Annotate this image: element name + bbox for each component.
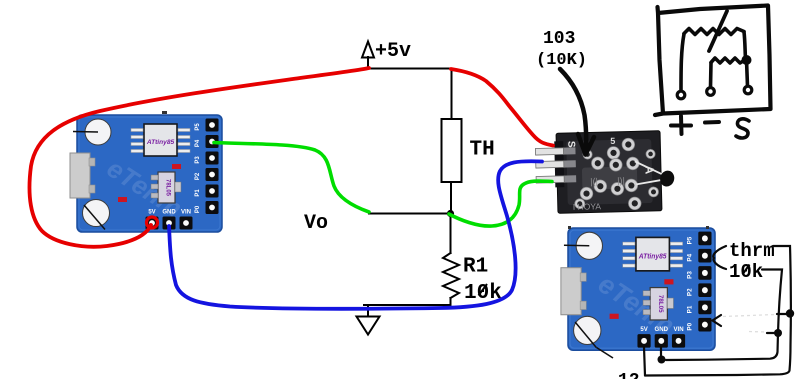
- header pin P0 B: [698, 318, 711, 332]
- red SMD component 1 B: [664, 279, 673, 284]
- header pin P2 B: [698, 283, 711, 297]
- svg-text:P1: P1: [687, 305, 694, 313]
- blue wire: left board GND to module middle pin: [169, 161, 542, 309]
- solder pads: [607, 146, 620, 159]
- svg-text:GND: GND: [162, 210, 176, 216]
- svg-text:VIN: VIN: [673, 326, 684, 333]
- svg-text:+5v: +5v: [375, 40, 411, 63]
- pcb texture: [566, 139, 653, 205]
- wire GND pin down to junction: [660, 347, 662, 358]
- header pin P2 A: [206, 168, 219, 181]
- svg-text:78L05: 78L05: [657, 295, 664, 313]
- tick mark above left board: [162, 111, 167, 114]
- thermistor TH body: [442, 119, 462, 182]
- board PCB B: [568, 228, 715, 350]
- slashed zero of 10k: [479, 284, 488, 296]
- thermistor leads: [635, 161, 663, 176]
- svg-text:ATtiny85: ATtiny85: [146, 139, 175, 146]
- bottom pin 5V B: [637, 334, 650, 348]
- svg-text:5V: 5V: [148, 210, 155, 216]
- svg-text:5V: 5V: [640, 326, 648, 333]
- red SMD component 1 A: [172, 164, 181, 169]
- resistor R1 zigzag: [443, 253, 459, 298]
- hand-drawn arrow to module: [560, 69, 594, 155]
- KY-013 thermistor module: [535, 130, 677, 213]
- svg-text:(10K): (10K): [536, 51, 587, 70]
- red SMD component 2 A: [118, 197, 127, 202]
- green wire: left board P4 to Vo: [214, 143, 369, 213]
- module header pin base: [554, 141, 564, 187]
- mounting hole bottom-left B: [574, 316, 601, 344]
- ATtiny85 IC U-A: [144, 124, 177, 156]
- handwritten minus: [705, 120, 719, 125]
- svg-text:P2: P2: [195, 172, 201, 180]
- annotation line through bottom hole B: [575, 322, 596, 348]
- svg-text:S: S: [565, 141, 576, 148]
- symbol resistor zigzag top: [684, 29, 744, 35]
- annotation line through top hole A: [73, 131, 98, 134]
- svg-text:78L05: 78L05: [165, 179, 171, 197]
- svg-text:A: A: [642, 165, 656, 174]
- red wire: +5v rail to module pin S: [451, 69, 553, 146]
- wire: Vo tap line: [369, 213, 450, 215]
- svg-text:|(|: |(|: [590, 176, 598, 186]
- svg-text:I HOYA: I HOYA: [573, 201, 602, 212]
- red wire: +5v to left board 5V (big loop): [29, 68, 369, 247]
- bottom pin VIN A: [180, 217, 193, 230]
- wire: ground rail: [364, 304, 451, 306]
- 78L05 regulator B: [650, 288, 667, 320]
- red SMD component 2 B: [610, 314, 619, 319]
- 78L05 regulator A: [158, 172, 175, 203]
- svg-text:Vo: Vo: [304, 212, 328, 235]
- bottom pin 5V A: [146, 217, 159, 230]
- header pin P3 A: [206, 152, 219, 165]
- svg-text:103: 103: [543, 29, 575, 49]
- annotation line through top hole B: [564, 244, 589, 247]
- junction dot on thrm bus: [786, 309, 794, 317]
- svg-text:R1: R1: [463, 256, 488, 279]
- wire 5V pin down to bottom bus: [644, 347, 645, 376]
- IC pins left B: [623, 242, 635, 245]
- header pin P1 A: [206, 185, 219, 198]
- symbol resistor zigzag 2: [711, 58, 744, 63]
- svg-text:5: 5: [610, 136, 615, 146]
- symbol middle lead: [709, 63, 713, 87]
- symbol wiper slash: [709, 11, 727, 51]
- bottom pin GND A: [163, 217, 176, 230]
- header pin P1 B: [698, 301, 711, 315]
- stub to thrm bus junction: [777, 313, 788, 315]
- module PCB: [556, 131, 662, 214]
- ATtiny85 IC U-B: [636, 237, 669, 270]
- board PCB A: [77, 115, 222, 232]
- annotation line extension on right board: [597, 348, 614, 359]
- junction dot GND: [658, 356, 666, 364]
- wire: node to R1: [450, 214, 452, 254]
- svg-text:P4: P4: [687, 253, 694, 261]
- tick marks above right board: [568, 226, 571, 229]
- wire: TH bottom to node: [450, 182, 452, 214]
- header pin P5 B: [698, 232, 711, 246]
- red wire loop around 5V pin: [147, 217, 158, 228]
- svg-text:12: 12: [618, 371, 640, 379]
- module header pins: [561, 147, 575, 154]
- hand-drawn thermistor symbol box: [655, 6, 771, 138]
- svg-text:TH: TH: [470, 139, 495, 162]
- IC pins right A: [178, 129, 190, 132]
- symbol left lead: [681, 34, 684, 90]
- thermistor bead: [658, 169, 676, 188]
- brace from P4 to labels: [713, 246, 726, 269]
- +5v supply arrow: [367, 57, 369, 69]
- faint erased line P0 to bus: [723, 315, 775, 317]
- bottom pin GND B: [655, 334, 668, 348]
- stub to 10k rail junction: [767, 332, 777, 334]
- mounting hole bottom-left A: [83, 200, 110, 227]
- svg-text:P3: P3: [687, 271, 694, 279]
- handwritten S: [736, 119, 749, 138]
- handwritten plus: [671, 116, 691, 134]
- svg-text:thrm: thrm: [729, 240, 775, 262]
- USB connector B: [561, 268, 581, 315]
- green wire: node to module bottom pin: [449, 181, 552, 226]
- line from 10k label down the 10k rail: [666, 270, 782, 361]
- slashed zero of right 10k: [743, 265, 750, 275]
- svg-text:ATtiny85: ATtiny85: [638, 253, 667, 260]
- svg-text:P5: P5: [195, 123, 201, 131]
- svg-text:P1: P1: [195, 189, 201, 197]
- header pin P4 A: [206, 135, 219, 148]
- svg-text:P5: P5: [687, 236, 694, 244]
- ground symbol: [367, 305, 369, 316]
- symbol right lead: [744, 32, 746, 59]
- wire: +5v rail to TH: [368, 68, 452, 70]
- junction dot on 10k line: [774, 329, 782, 337]
- svg-text:VIN: VIN: [181, 210, 191, 216]
- line from thrm label to right bus and bottom bus: [645, 246, 791, 376]
- svg-text:P0: P0: [687, 322, 694, 330]
- IC pins right B: [670, 242, 682, 245]
- annotation line through bottom hole A: [84, 205, 105, 230]
- svg-text:10k: 10k: [729, 261, 763, 283]
- header pin P5 A: [206, 119, 219, 132]
- header pin P3 B: [698, 266, 711, 280]
- USB connector A: [70, 153, 90, 198]
- svg-text:|)|: |)|: [617, 176, 625, 186]
- arrow at P0: [713, 315, 722, 326]
- svg-text:P2: P2: [687, 288, 694, 296]
- mounting hole top-left A: [85, 119, 111, 145]
- ATtiny85 Digispark board A: [70, 115, 222, 232]
- symbol junction dot: [743, 56, 751, 64]
- node junction dot: [447, 210, 454, 217]
- svg-text:P4: P4: [195, 139, 201, 147]
- bottom pin VIN B: [672, 334, 685, 348]
- header pin P4 B: [698, 249, 711, 263]
- wire: R1 to ground rail: [450, 298, 452, 305]
- header pin P0 A: [206, 201, 219, 214]
- svg-text:P3: P3: [195, 156, 201, 164]
- faint erased line 2: [749, 331, 766, 334]
- svg-text:P0: P0: [195, 205, 201, 213]
- svg-text:GND: GND: [655, 326, 669, 333]
- symbol third lead: [747, 60, 748, 86]
- IC pins left A: [131, 129, 143, 132]
- ATtiny85 Digispark board B: [561, 228, 715, 350]
- wire: rail down to TH top: [451, 69, 453, 120]
- mounting hole top-left B: [576, 232, 602, 259]
